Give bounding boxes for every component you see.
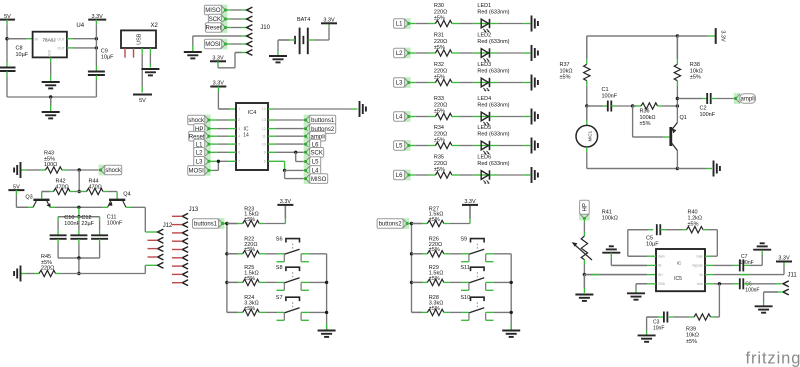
node junction: [283, 169, 286, 172]
resistor R35 220: [435, 172, 452, 178]
wire: [209, 169, 214, 171]
LED LED3: [481, 82, 490, 84]
svg-text:10kΩ: 10kΩ: [686, 333, 699, 339]
right rail: [326, 254, 328, 330]
net label buttons2: [402, 218, 409, 229]
svg-text:8: 8: [264, 160, 266, 164]
wire: [490, 52, 498, 54]
ground: [531, 75, 533, 91]
wire: [7, 96, 96, 98]
svg-text:±5%: ±5%: [640, 121, 651, 127]
wire: [223, 223, 227, 225]
wire: [611, 105, 616, 107]
svg-text:IN+: IN+: [658, 273, 663, 277]
net label MOSI: [220, 39, 227, 50]
wires caps bottom: [57, 239, 59, 244]
wire: [308, 39, 314, 41]
svg-text:220Ω: 220Ω: [434, 39, 447, 45]
svg-text:2: 2: [238, 118, 240, 122]
svg-text:R30: R30: [434, 3, 444, 9]
LED LED4: [481, 116, 490, 118]
net label HP: [204, 123, 211, 134]
svg-text:14: 14: [243, 133, 249, 139]
svg-text:3.3V: 3.3V: [92, 14, 104, 20]
wire: [586, 81, 588, 86]
svg-text:L4: L4: [396, 115, 403, 121]
microphone MIC1: [586, 106, 588, 120]
node junction: [410, 252, 413, 255]
node junction: [676, 104, 679, 107]
IC IC5: [656, 249, 705, 291]
svg-text:buttons1: buttons1: [311, 118, 335, 124]
svg-text:R40: R40: [688, 209, 698, 215]
svg-text:10: 10: [262, 142, 266, 146]
ground flipped: [761, 251, 763, 255]
wire GND pin: [636, 283, 647, 285]
wire: [62, 169, 67, 171]
svg-text:L6: L6: [396, 173, 403, 179]
svg-text:4: 4: [238, 134, 240, 138]
wire: [444, 223, 449, 225]
node junction: [718, 282, 721, 285]
svg-text:10nF: 10nF: [653, 325, 664, 331]
node junction: [95, 37, 98, 40]
svg-text:LED2: LED2: [477, 33, 491, 39]
wire Vout: [705, 283, 714, 285]
svg-text:R38: R38: [690, 62, 700, 68]
wire: [444, 281, 450, 283]
wire: [22, 169, 27, 171]
svg-text:C11: C11: [107, 214, 117, 220]
svg-text:C12: C12: [81, 215, 91, 221]
pin unconnected: [148, 239, 158, 241]
left rail: [226, 224, 228, 313]
resistor R29 1.5kΩ: [412, 281, 423, 283]
svg-text:±5%: ±5%: [688, 222, 699, 228]
resistor R25 1.5kΩ: [227, 281, 238, 283]
resistor R38 10k: [676, 36, 678, 59]
svg-text:LED5: LED5: [477, 125, 491, 131]
svg-text:S6: S6: [276, 237, 283, 243]
svg-text:IC4: IC4: [248, 110, 257, 116]
wire: [452, 23, 460, 25]
svg-text:IC: IC: [677, 261, 682, 266]
svg-text:Red (633nm): Red (633nm): [477, 102, 509, 108]
pin unconnected: [124, 48, 126, 58]
svg-text:3: 3: [238, 127, 240, 131]
svg-text:Vout: Vout: [697, 282, 703, 286]
LED LED5: [481, 145, 490, 147]
right rail: [510, 254, 512, 330]
wire: [284, 170, 286, 178]
wire: [490, 145, 498, 147]
svg-text:Gain: Gain: [658, 254, 665, 258]
USB connector X2: [121, 30, 156, 48]
wire: [490, 174, 498, 176]
wire Q4 out: [126, 206, 131, 208]
ground: [531, 45, 533, 61]
net label MISO: [304, 173, 311, 184]
net label MOSI: [204, 165, 211, 176]
ground: [531, 167, 533, 183]
wire: [647, 316, 658, 318]
svg-text:220Ω: 220Ω: [434, 9, 447, 15]
svg-text:MISO: MISO: [311, 177, 327, 183]
wire: [711, 316, 716, 318]
node junction: [225, 281, 228, 284]
svg-text:±5%: ±5%: [244, 247, 255, 253]
svg-text:S11: S11: [460, 265, 469, 271]
node junction: [49, 95, 52, 98]
svg-text:S7: S7: [276, 295, 283, 301]
node junction: [325, 281, 328, 284]
wire cap bottom rail: [58, 257, 100, 259]
net label Reset: [220, 22, 227, 33]
wire: [452, 145, 460, 147]
wire: [711, 98, 716, 100]
resistor R28 3.3kΩ: [412, 311, 423, 313]
resistor R39 10k: [694, 314, 711, 320]
wire: [490, 23, 498, 25]
ground: [20, 162, 22, 178]
wire: [268, 119, 276, 121]
wire: [660, 229, 665, 231]
svg-text:3.3V: 3.3V: [720, 30, 726, 42]
svg-text:C5: C5: [646, 235, 653, 241]
ground flipped: [602, 252, 620, 254]
capacitor C2 100nF: [706, 93, 708, 104]
resistor R24 3.3kΩ: [227, 311, 238, 313]
svg-text:±5%: ±5%: [244, 217, 255, 223]
wire: [744, 264, 749, 266]
svg-text:±5%: ±5%: [244, 306, 255, 312]
wire base Q4: [103, 191, 108, 193]
svg-text:100nF: 100nF: [107, 221, 123, 227]
LED LED6: [481, 174, 490, 176]
wire: [587, 105, 603, 107]
ground: [713, 161, 715, 177]
wire: [268, 143, 276, 145]
node junction: [77, 256, 80, 259]
wire: [677, 168, 706, 170]
wire: [301, 253, 309, 255]
wire 5V: [141, 48, 143, 54]
node junction: [78, 168, 81, 171]
resistor R26 220Ω: [412, 253, 423, 255]
svg-text:Vs: Vs: [699, 273, 703, 277]
svg-text:R41: R41: [602, 209, 612, 215]
resistor R43 100: [45, 167, 62, 173]
svg-text:C1: C1: [602, 87, 609, 93]
wire: [78, 258, 80, 274]
capacitor C8: [6, 62, 8, 67]
resistor R40 1.2k: [687, 227, 704, 233]
capacitor C1 100nF: [607, 101, 609, 112]
svg-text:3.3V: 3.3V: [280, 199, 292, 205]
capacitor C9: [95, 66, 97, 71]
node junction: [410, 222, 413, 225]
wire: [677, 35, 707, 37]
svg-text:±5%: ±5%: [434, 108, 445, 114]
resistor R44 470: [87, 188, 103, 194]
node junction: [631, 104, 634, 107]
wire: [409, 23, 416, 25]
svg-text:220Ω: 220Ω: [41, 266, 54, 272]
wire: [259, 253, 265, 255]
svg-text:Q4: Q4: [123, 192, 130, 198]
svg-text:100kΩ: 100kΩ: [602, 216, 618, 222]
svg-text:R35: R35: [434, 155, 444, 161]
svg-text:S9: S9: [460, 237, 467, 243]
svg-text:±5%: ±5%: [686, 339, 697, 345]
LED LED1: [481, 23, 490, 25]
svg-text:J10: J10: [260, 25, 270, 31]
ground: [531, 138, 533, 154]
svg-text:10µF: 10µF: [101, 54, 114, 60]
svg-text:Reset: Reset: [206, 26, 222, 32]
wire: [209, 128, 217, 130]
ground: [646, 331, 648, 335]
net label L6: [304, 139, 311, 150]
ground: [149, 48, 151, 54]
wire top rail: [587, 35, 678, 37]
wire: [301, 311, 309, 313]
pin unconnected: [148, 256, 158, 258]
svg-text:shock: shock: [188, 118, 205, 124]
wire pin1: [217, 87, 219, 93]
resistor R32 220: [435, 79, 452, 85]
svg-text:78A0J: 78A0J: [42, 37, 55, 42]
ground: [635, 290, 637, 293]
ground: [50, 57, 52, 62]
svg-text:GND: GND: [658, 282, 666, 286]
wire: [658, 105, 663, 107]
net label ampli: [734, 93, 741, 104]
svg-text:3.3V: 3.3V: [212, 56, 224, 62]
svg-text:MOSI: MOSI: [205, 42, 221, 48]
net label L2: [404, 48, 411, 59]
ground: [359, 101, 361, 117]
svg-text:Red (633nm): Red (633nm): [477, 131, 509, 137]
voltage regulator U4: [33, 32, 67, 58]
svg-text:±5%: ±5%: [429, 276, 440, 282]
wire: [583, 260, 585, 265]
node junction: [77, 272, 80, 275]
resistor R34 220: [435, 142, 452, 148]
power rail 3.3V: [277, 204, 293, 206]
svg-text:9: 9: [264, 151, 266, 155]
capacitor C5 10uF: [656, 224, 658, 235]
resistor R23 1.5kΩ: [227, 223, 238, 225]
power rail 3.3V: [210, 86, 226, 88]
power rail 3.3V: [210, 60, 226, 62]
node junction: [676, 167, 679, 170]
svg-text:100nF: 100nF: [745, 288, 759, 294]
IC IC4: [236, 103, 268, 170]
node junction: [5, 37, 8, 40]
svg-text:X2: X2: [151, 23, 159, 29]
wire bypass: [705, 264, 714, 266]
svg-text:S8: S8: [276, 265, 283, 271]
svg-text:5V: 5V: [139, 98, 146, 104]
pin unconnected: [133, 48, 135, 58]
net label L4: [404, 111, 411, 122]
svg-text:7: 7: [238, 160, 240, 164]
svg-text:shock: shock: [105, 168, 122, 174]
svg-text:C10: C10: [64, 215, 74, 221]
wire: [259, 223, 264, 225]
svg-text:3.3V: 3.3V: [213, 81, 225, 87]
svg-text:L1: L1: [396, 22, 403, 28]
svg-text:L2: L2: [396, 51, 403, 57]
svg-text:3.3V: 3.3V: [778, 256, 790, 262]
net label SCK: [220, 14, 227, 25]
node junction: [585, 104, 588, 107]
svg-text:LED1: LED1: [477, 3, 491, 9]
ground: [326, 324, 328, 330]
svg-text:100Ω: 100Ω: [44, 162, 57, 168]
wire: [226, 27, 231, 29]
net label L5: [404, 140, 411, 151]
wire gain loop right: [703, 229, 708, 231]
wire R39 tap: [718, 284, 720, 317]
wire: [409, 116, 416, 118]
svg-text:R36: R36: [640, 109, 650, 115]
svg-text:IN: IN: [35, 38, 39, 42]
net label ampli: [304, 131, 311, 142]
capacitor C6 100nF: [739, 278, 741, 289]
power rail 3.3V: [776, 261, 792, 263]
wire: [209, 160, 217, 162]
svg-text:1: 1: [238, 107, 240, 111]
node junction: [217, 160, 220, 163]
svg-text:Red (633nm): Red (633nm): [477, 9, 509, 15]
net label shock: [204, 115, 211, 126]
svg-text:R33: R33: [434, 96, 444, 102]
net label L3: [404, 77, 411, 88]
wire wiper to IN+: [584, 274, 647, 276]
wire: [610, 253, 612, 258]
node junction: [225, 252, 228, 255]
wire: [452, 174, 460, 176]
resistor R33 220: [435, 113, 452, 119]
resistor R27 1.5kΩ: [412, 223, 423, 225]
svg-text:10µF: 10µF: [646, 241, 659, 247]
net label L1: [204, 139, 211, 150]
svg-text:C2: C2: [700, 106, 707, 112]
resistor R22 220Ω: [227, 253, 238, 255]
resistor R30 220: [435, 20, 452, 26]
resistor R36 100k: [641, 103, 658, 109]
svg-text:buttons1: buttons1: [194, 222, 218, 228]
wire: [259, 281, 265, 283]
ground: [531, 109, 533, 125]
wire: [144, 265, 146, 273]
svg-text:IC5: IC5: [674, 276, 682, 282]
net label L1: [404, 18, 411, 29]
wire: [490, 82, 498, 84]
wire: [676, 81, 678, 86]
wire: [22, 273, 27, 275]
wire: [407, 223, 411, 225]
svg-text:MOSI: MOSI: [189, 169, 205, 175]
svg-text:fritzing: fritzing: [746, 350, 800, 367]
wire: [744, 283, 750, 285]
wire: [583, 275, 585, 288]
net label L5: [304, 156, 311, 167]
svg-text:OUT: OUT: [57, 38, 65, 42]
svg-text:L3: L3: [396, 81, 403, 87]
net label buttons2: [304, 123, 311, 134]
capacitor C12 22uF: [78, 217, 80, 221]
wire: [209, 119, 217, 121]
svg-text:HP: HP: [583, 203, 589, 211]
svg-text:±5%: ±5%: [429, 247, 440, 253]
svg-text:R44: R44: [89, 178, 99, 184]
wire: [95, 20, 97, 25]
svg-text:SCK: SCK: [311, 151, 323, 157]
power rail 5V: [133, 94, 152, 96]
wire: [301, 281, 309, 283]
wire: [67, 47, 73, 49]
resistor R45 220: [39, 270, 56, 276]
wire: [409, 52, 416, 54]
svg-text:5: 5: [238, 142, 240, 146]
svg-text:R34: R34: [434, 125, 444, 131]
svg-text:J12: J12: [163, 223, 173, 229]
ground: [575, 294, 593, 296]
node junction: [510, 311, 513, 314]
svg-text:100nF: 100nF: [700, 112, 716, 118]
wire: [669, 316, 674, 318]
svg-text:U4: U4: [76, 23, 84, 29]
svg-text:220Ω: 220Ω: [434, 131, 447, 137]
wire: [452, 82, 460, 84]
node junction: [325, 311, 328, 314]
ground: [184, 51, 202, 53]
ground: [20, 266, 22, 282]
potentiometer R41 100k: [581, 236, 587, 260]
wire pin14 to ground: [268, 108, 274, 110]
svg-text:±5%: ±5%: [434, 137, 445, 143]
wire: [444, 311, 450, 313]
wire: [409, 82, 416, 84]
wire: [583, 219, 585, 223]
wire: [259, 311, 265, 313]
node junction: [410, 281, 413, 284]
ground: [531, 16, 533, 32]
svg-text:±5%: ±5%: [434, 45, 445, 51]
LED LED2: [481, 52, 490, 54]
wire to ground: [193, 35, 242, 37]
net label L4: [304, 165, 311, 176]
svg-text:1.2kΩ: 1.2kΩ: [688, 216, 703, 222]
capacitor C10 100nF: [57, 217, 59, 221]
svg-text:LED4: LED4: [477, 96, 491, 102]
net label buttons1: [218, 218, 225, 229]
power rail 5V: [0, 19, 15, 21]
svg-text:±5%: ±5%: [560, 75, 571, 81]
svg-text:L2: L2: [196, 151, 203, 157]
wire emitter rail: [50, 206, 55, 208]
svg-text:14: 14: [262, 107, 266, 111]
svg-text:100nF: 100nF: [64, 221, 80, 227]
wire: [6, 20, 8, 25]
wire: [295, 152, 297, 161]
svg-text:S10: S10: [460, 295, 470, 301]
svg-text:12: 12: [262, 127, 266, 131]
wire: [285, 169, 306, 171]
